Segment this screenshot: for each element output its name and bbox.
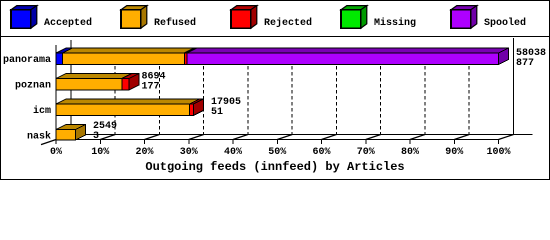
svg-text:nask: nask: [27, 131, 51, 143]
side face spooled: [498, 48, 508, 65]
svg-text:panorama: panorama: [3, 55, 51, 66]
segment refused (orange): [56, 74, 132, 79]
svg-text:60%: 60%: [312, 147, 330, 158]
svg-text:Accepted: Accepted: [44, 17, 92, 29]
segment rejected (red sliver): [184, 48, 197, 53]
svg-text:51: 51: [211, 107, 223, 118]
svg-text:30%: 30%: [180, 147, 198, 158]
segment rejected (red): [189, 99, 203, 104]
segment refused (orange): [56, 125, 86, 130]
legend cube Rejected (red): [231, 6, 257, 29]
svg-text:Outgoing feeds (innfeed) by Ar: Outgoing feeds (innfeed) by Articles: [145, 160, 404, 174]
outer border: [1, 1, 550, 180]
svg-text:50%: 50%: [268, 147, 286, 158]
svg-text:877: 877: [516, 58, 534, 69]
legend cube Refused (orange): [121, 6, 147, 29]
floor back line: [71, 134, 533, 136]
svg-text:icm: icm: [33, 105, 51, 117]
side face rejected: [193, 99, 203, 116]
svg-text:Refused: Refused: [154, 17, 196, 29]
origin depth diagonal: [41, 135, 71, 145]
bar row panorama: [56, 48, 508, 65]
svg-text:Missing: Missing: [374, 17, 416, 29]
svg-text:100%: 100%: [486, 147, 510, 158]
segment spooled (purple): [187, 48, 509, 53]
bar row nask: [56, 125, 86, 141]
svg-text:20%: 20%: [135, 147, 153, 158]
gridlines (dashed, back plane): [115, 48, 469, 135]
y-axis front line: [55, 45, 57, 140]
legend cube Spooled (purple): [451, 6, 477, 29]
svg-text:177: 177: [142, 82, 160, 93]
side face refused: [76, 125, 86, 141]
svg-text:3: 3: [93, 131, 99, 142]
svg-text:poznan: poznan: [15, 81, 51, 92]
segment refused (orange): [56, 99, 199, 104]
legend cube Accepted (blue): [11, 6, 37, 29]
svg-text:Spooled: Spooled: [484, 17, 526, 29]
floor front line (x axis): [56, 139, 499, 141]
bar row poznan: [56, 74, 139, 91]
side face rejected: [129, 74, 139, 91]
svg-text:0%: 0%: [50, 147, 62, 158]
segment refused (orange): [63, 48, 195, 53]
segment accepted (blue): [56, 48, 73, 53]
svg-text:80%: 80%: [401, 147, 419, 158]
svg-text:40%: 40%: [224, 147, 242, 158]
x ticks and depth diagonals: [56, 140, 499, 145]
svg-text:10%: 10%: [91, 147, 109, 158]
legend separator line: [0, 36, 550, 38]
x axis labels: [50, 147, 511, 158]
svg-text:Rejected: Rejected: [264, 17, 312, 29]
back wall left edge (0% back): [70, 40, 72, 135]
legend cube Missing (green): [341, 6, 367, 29]
bar row icm: [56, 99, 203, 116]
segment rejected (red): [122, 74, 139, 79]
svg-text:70%: 70%: [357, 147, 375, 158]
svg-text:90%: 90%: [445, 147, 463, 158]
back wall right edge (100% back): [513, 38, 515, 135]
